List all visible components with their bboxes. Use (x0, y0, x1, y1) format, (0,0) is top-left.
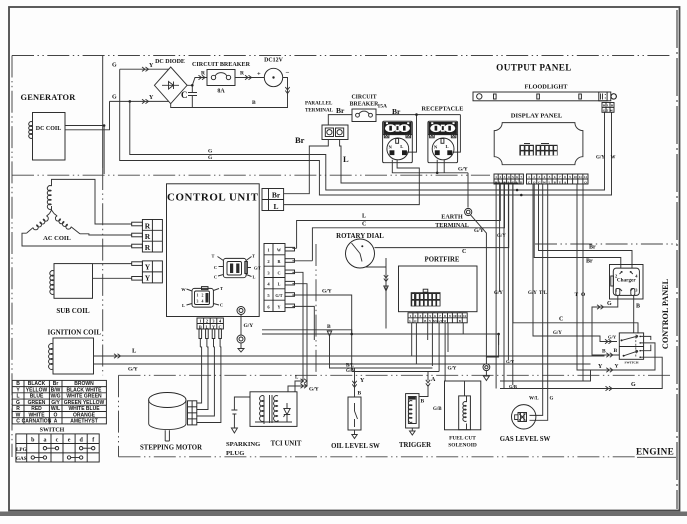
svg-text:6: 6 (434, 314, 436, 318)
chevron R wire (199, 75, 206, 79)
svg-text:A: A (431, 377, 436, 383)
fuel cut box (445, 381, 481, 430)
svg-text:ROTARY DIAL: ROTARY DIAL (336, 233, 384, 240)
diode bridge DC DIODE (154, 67, 187, 104)
svg-text:R: R (145, 221, 151, 230)
wire breaker 15A out (376, 115, 460, 153)
svg-text:RED: RED (31, 406, 42, 412)
svg-text:L: L (549, 180, 551, 184)
svg-text:G/Y: G/Y (309, 387, 319, 393)
svg-text:BROWN: BROWN (74, 381, 94, 387)
mid vertical dash-dot boundary (315, 244, 317, 375)
svg-text:+: + (257, 71, 261, 78)
svg-text:G/Y: G/Y (458, 167, 468, 173)
svg-text:G/Y: G/Y (51, 400, 60, 406)
svg-text:C: C (277, 270, 280, 275)
chevron Y switch (606, 368, 613, 372)
right inner dash line (676, 10, 678, 509)
wires bottom strip to motor (200, 339, 220, 348)
svg-text:2: 2 (414, 314, 416, 318)
trigger wires (410, 372, 429, 436)
wire G bottom right (500, 357, 662, 388)
svg-text:G/T: G/T (603, 109, 609, 113)
control-panel top dash-dot boundary (535, 243, 677, 245)
svg-text:G/Y: G/Y (128, 367, 138, 373)
sub coil box (54, 264, 93, 299)
svg-text:G: G (112, 95, 117, 101)
svg-text:Charger: Charger (617, 278, 636, 284)
svg-text:C: C (220, 303, 223, 308)
svg-text:CONTROL UNIT: CONTROL UNIT (167, 192, 259, 204)
svg-text:G/Y: G/Y (497, 234, 506, 239)
svg-text:B: B (252, 100, 256, 106)
tci inner wires (255, 420, 292, 424)
wire G trunk lower (130, 101, 605, 190)
svg-text:C: C (462, 249, 466, 255)
display panel outline (494, 123, 583, 165)
earth terminal symbol (465, 208, 472, 215)
bottom shadow bar (0, 512, 687, 517)
svg-text:8: 8 (444, 314, 446, 318)
svg-text:R: R (16, 406, 20, 412)
svg-text:L: L (343, 154, 349, 164)
svg-text:G/T: G/T (254, 266, 261, 271)
portfire strip drops (412, 323, 464, 381)
svg-text:10: 10 (453, 314, 457, 318)
wire dc coil top output (65, 125, 104, 127)
svg-text:TCI UNIT: TCI UNIT (271, 441, 302, 448)
ignition coil winding (49, 344, 53, 370)
svg-text:W: W (181, 287, 186, 292)
svg-text:B: B (636, 304, 640, 310)
left inner dash line (11, 56, 13, 458)
svg-text:BLACK WHITE: BLACK WHITE (67, 387, 103, 393)
svg-text:4: 4 (202, 300, 204, 304)
wire parallel up (328, 115, 352, 125)
svg-text:G: G (512, 180, 515, 184)
svg-text:G/T: G/T (275, 293, 282, 298)
wire T drop (577, 184, 655, 370)
svg-text:e: e (68, 438, 71, 444)
wire C to switch (513, 184, 638, 334)
svg-text:7: 7 (520, 175, 522, 179)
chevron B switch (606, 353, 613, 357)
svg-text:Y: Y (149, 63, 154, 69)
svg-text:15A: 15A (378, 104, 388, 110)
tci top wires (288, 381, 307, 392)
svg-text:6: 6 (267, 304, 270, 309)
svg-text:L: L (278, 282, 281, 287)
svg-text:LPG: LPG (16, 447, 27, 453)
dc12v battery circle (264, 68, 282, 86)
chevron charger G (597, 305, 604, 309)
svg-text:RECEPTACLE: RECEPTACLE (422, 106, 464, 113)
svg-text:WHITE GREEN: WHITE GREEN (66, 394, 102, 400)
wire breaker to DC12V (235, 77, 264, 79)
circuit breaker 8A box (207, 70, 235, 86)
oil level sw box (348, 397, 361, 430)
wire C from strip to control unit (292, 184, 504, 261)
wire TL drop (530, 184, 548, 420)
svg-text:C: C (214, 265, 217, 270)
svg-text:5: 5 (267, 293, 270, 298)
svg-text:W: W (16, 412, 21, 418)
svg-text:G/Y: G/Y (448, 367, 457, 372)
svg-text:6: 6 (516, 175, 518, 179)
svg-text:4: 4 (635, 274, 638, 279)
Br L terminal box (262, 189, 284, 211)
portfire lower strip (408, 313, 467, 323)
svg-text:W: W (443, 319, 446, 323)
svg-text:B/W: B/W (51, 387, 61, 393)
svg-text:Y: Y (145, 263, 151, 272)
control unit box (167, 184, 260, 317)
svg-text:EARTH: EARTH (441, 215, 463, 221)
R terminal pins (132, 222, 143, 226)
svg-text:3: 3 (504, 175, 506, 179)
chevron on return wire (285, 87, 289, 94)
wire bridge to breaker R (187, 78, 207, 86)
svg-text:G: G (631, 382, 636, 388)
svg-text:T/L: T/L (539, 291, 548, 296)
svg-text:11: 11 (579, 175, 582, 179)
svg-text:Y: Y (598, 364, 603, 370)
breaker 15A symbol (356, 113, 360, 117)
svg-text:SWITCH: SWITCH (625, 360, 639, 364)
svg-text:R: R (145, 243, 151, 252)
wire sub coil to Y1 (93, 264, 132, 265)
svg-text:Br: Br (295, 135, 305, 145)
trigger box (406, 394, 419, 428)
svg-text:C: C (181, 90, 188, 100)
svg-text:W: W (277, 248, 282, 253)
switch B wires (644, 336, 651, 350)
control unit right connector strip (264, 244, 285, 312)
svg-text:12: 12 (463, 314, 467, 318)
tci chevrons (301, 379, 308, 383)
svg-text:C: C (214, 275, 217, 280)
svg-text:7: 7 (439, 314, 441, 318)
svg-text:b: b (31, 438, 35, 444)
svg-text:FLOODLIGHT: FLOODLIGHT (524, 84, 568, 91)
rotary dial circle (346, 239, 375, 268)
svg-text:−: − (286, 69, 290, 77)
wire receptacle2 L drop (453, 115, 461, 153)
tci core lines (269, 395, 271, 423)
wire earth drop (467, 173, 469, 208)
wire receptacle2 N drop (437, 159, 444, 173)
tci diode (284, 403, 291, 420)
top section dash-dot boundary (12, 55, 672, 57)
svg-text:G/Y: G/Y (528, 291, 537, 296)
capacitor C (188, 85, 197, 107)
svg-text:BLACK: BLACK (28, 381, 46, 387)
svg-text:N: N (434, 144, 438, 149)
control panel switch box (619, 333, 643, 359)
wires pins 3-6 down (292, 272, 351, 386)
svg-text:G/Y: G/Y (506, 359, 515, 364)
svg-text:L: L (362, 214, 366, 220)
svg-text:L: L (182, 303, 185, 308)
svg-text:d: d (79, 438, 83, 444)
svg-text:1: 1 (197, 294, 199, 298)
wire strip A spare drops (496, 184, 513, 389)
svg-text:GENERATOR: GENERATOR (21, 93, 77, 102)
svg-text:WHITE: WHITE (28, 412, 45, 418)
wire L box out (284, 159, 420, 204)
svg-text:G: G (208, 149, 213, 155)
svg-text:L: L (295, 376, 299, 381)
wire charger pin1 G (592, 295, 619, 355)
svg-text:Y: Y (149, 95, 154, 101)
svg-text:PORTFIRE: PORTFIRE (425, 257, 460, 264)
svg-text:Y: Y (145, 274, 151, 283)
svg-text:OUTPUT PANEL: OUTPUT PANEL (496, 63, 572, 73)
svg-text:2: 2 (499, 175, 501, 179)
svg-text:OIL LEVEL SW: OIL LEVEL SW (331, 443, 380, 450)
svg-text:C: C (362, 222, 366, 228)
tci primary coil (260, 396, 264, 422)
oil level wire (354, 368, 356, 397)
svg-text:L: L (132, 348, 137, 355)
terminal strip A (494, 174, 523, 184)
svg-text:B: B (602, 349, 606, 355)
control unit connector A (223, 258, 246, 277)
wire B lower (262, 334, 499, 345)
svg-text:A: A (54, 419, 58, 425)
charger box (610, 265, 644, 300)
svg-text:c: c (56, 438, 59, 444)
svg-text:R: R (277, 259, 281, 264)
svg-text:CIRCUIT BREAKER: CIRCUIT BREAKER (192, 62, 251, 68)
wire Br to charger pin4 (539, 184, 633, 268)
wire to bottom earth (486, 334, 498, 357)
wire ac coil left phase (22, 233, 132, 246)
chevron GT switch (605, 339, 612, 343)
wire rotary dial down (365, 258, 386, 329)
svg-text:4: 4 (267, 282, 270, 287)
svg-text:DC COIL: DC COIL (36, 126, 62, 132)
svg-text:Y: Y (615, 364, 619, 370)
wire Br to charger pin2 (534, 184, 621, 268)
svg-text:DC12V: DC12V (264, 58, 283, 64)
svg-text:G/Y: G/Y (553, 331, 562, 336)
svg-text:Br: Br (589, 245, 596, 251)
svg-text:1: 1 (267, 248, 270, 253)
portfire to box drops (415, 292, 461, 313)
earth symbol below control unit (237, 307, 245, 315)
bridge inner diode symbol (162, 82, 179, 90)
wire ignition GY out (94, 364, 591, 381)
wire G trunk upper (120, 69, 612, 195)
svg-text:SWITCH: SWITCH (40, 428, 65, 434)
ac coil windings (47, 186, 51, 210)
chevron dial drop (384, 275, 388, 282)
svg-text:3: 3 (635, 288, 638, 293)
svg-text:B: B (327, 324, 331, 330)
chevron G engine (606, 386, 613, 390)
svg-text:L: L (409, 319, 411, 323)
wire DC12V return B (171, 78, 288, 108)
wire O drop (582, 184, 584, 381)
svg-text:G/Y: G/Y (322, 289, 332, 295)
svg-text:L: L (253, 275, 256, 280)
svg-text:TERMINAL: TERMINAL (305, 108, 334, 114)
control unit bottom connector strip (197, 318, 223, 329)
engine top dash-dot boundary (119, 374, 673, 376)
svg-text:B: B (421, 399, 425, 405)
svg-text:T: T (220, 286, 223, 291)
svg-text:G/Y: G/Y (244, 323, 254, 329)
svg-text:FUEL CUT: FUEL CUT (449, 436, 476, 442)
svg-text:ORANGE: ORANGE (73, 412, 96, 418)
svg-text:CARNATION: CARNATION (22, 419, 52, 425)
svg-text:5: 5 (512, 175, 514, 179)
svg-text:3: 3 (419, 314, 421, 318)
stepping motor body (149, 400, 186, 430)
circuit breaker 15A box (352, 109, 376, 122)
svg-text:T: T (212, 254, 215, 259)
svg-text:5: 5 (429, 314, 431, 318)
svg-text:G: G (607, 301, 612, 307)
sub coil winding (50, 271, 54, 295)
engine left dash-dot boundary (118, 375, 120, 457)
chevron trigger (426, 380, 430, 387)
svg-text:GAS: GAS (16, 456, 27, 462)
floodlight terminal grid (602, 103, 614, 113)
svg-text:N: N (389, 144, 393, 149)
portfire connector (411, 292, 441, 306)
svg-text:AMETHYST: AMETHYST (70, 419, 98, 425)
svg-text:C: C (16, 419, 20, 425)
svg-text:W: W (611, 156, 616, 161)
floodlight bar (473, 92, 611, 101)
wire G bottom into bridge (110, 100, 169, 102)
chevron ignition L (114, 354, 121, 358)
svg-text:W/L: W/L (529, 397, 539, 402)
svg-text:Br: Br (272, 191, 281, 200)
svg-text:PLUG: PLUG (226, 450, 244, 457)
svg-text:YELLOW: YELLOW (26, 387, 48, 393)
svg-text:G: G (208, 155, 213, 161)
wire sub coil to Y2 (93, 277, 132, 279)
terminal strip B (527, 174, 589, 184)
wire charger pin3 B (633, 295, 635, 333)
svg-text:STEPPING MOTOR: STEPPING MOTOR (140, 445, 202, 452)
svg-text:TRIGGER: TRIGGER (399, 442, 431, 449)
svg-text:SOLENOID: SOLENOID (448, 443, 477, 449)
svg-text:10: 10 (574, 175, 578, 179)
svg-text:4: 4 (219, 319, 222, 324)
sparking plug (231, 397, 250, 433)
parallel terminal box (322, 125, 348, 140)
svg-text:Br: Br (336, 106, 345, 115)
generator/control vertical dash-dot boundary (102, 56, 104, 169)
svg-text:W/G: W/G (51, 394, 61, 400)
svg-text:SPARKING: SPARKING (226, 441, 260, 448)
svg-text:4: 4 (508, 175, 510, 179)
ignition coil box (53, 338, 94, 374)
chevron after breaker (245, 75, 252, 79)
wire parallel Br down (284, 140, 329, 194)
svg-text:GAS LEVEL SW: GAS LEVEL SW (500, 436, 551, 443)
svg-text:B: B (614, 348, 618, 354)
svg-text:R: R (145, 232, 151, 241)
wire B upper (262, 330, 352, 334)
svg-text:1: 1 (199, 319, 201, 324)
svg-text:11: 11 (458, 314, 462, 318)
wire parallel L down (340, 140, 518, 185)
svg-text:O: O (54, 412, 58, 418)
breaker 8A symbol (211, 75, 215, 79)
portfire box (399, 266, 478, 312)
gas level circle (512, 405, 536, 429)
wire ignition L out (94, 355, 605, 357)
receptacle 2 (428, 121, 458, 163)
dc coil winding (29, 122, 33, 139)
chevron on top G wire (142, 67, 149, 71)
svg-text:T: T (252, 254, 255, 259)
svg-text:f: f (92, 438, 95, 444)
svg-text:2: 2 (202, 294, 204, 298)
svg-text:B: B (16, 381, 20, 387)
svg-text:G/Y: G/Y (494, 291, 503, 296)
tci unit box (250, 392, 297, 427)
svg-text:3: 3 (267, 270, 270, 275)
svg-text:G/Y: G/Y (608, 335, 617, 340)
chevron oil (352, 381, 356, 388)
engine bottom dash-dot line (119, 456, 637, 458)
svg-text:G/B: G/B (433, 407, 442, 412)
svg-text:3: 3 (197, 300, 199, 304)
svg-text:GREEN: GREEN (28, 400, 46, 406)
svg-text:L: L (446, 144, 449, 149)
wire colour legend table (12, 380, 106, 424)
svg-text:12: 12 (584, 175, 588, 179)
svg-text:G: G (550, 397, 554, 402)
svg-text:R: R (201, 71, 206, 77)
svg-text:Y: Y (360, 378, 365, 384)
svg-text:B: B (358, 391, 362, 397)
svg-text:G/Y: G/Y (596, 156, 605, 161)
svg-text:GREEN YELLOW: GREEN YELLOW (64, 400, 105, 406)
wire L from strip to control unit (292, 184, 500, 248)
wire dc coil drop (103, 126, 105, 175)
svg-text:WHITE BLUE: WHITE BLUE (68, 406, 100, 412)
bottom earth symbol (483, 364, 490, 371)
mid-left dash-dot boundary (12, 174, 490, 176)
svg-text:G: G (112, 63, 117, 69)
control unit connector B (192, 288, 213, 307)
Y terminal pins (132, 262, 143, 266)
svg-text:9: 9 (449, 314, 451, 318)
svg-text:L: L (273, 202, 278, 211)
svg-text:8A: 8A (217, 89, 225, 95)
wire GT to switch (533, 184, 617, 342)
svg-text:2: 2 (267, 259, 270, 264)
ac coil apex joint (50, 206, 55, 214)
svg-text:L: L (400, 144, 403, 149)
wire dc coil bottom output to G (65, 101, 110, 129)
svg-text:R: R (240, 71, 245, 77)
svg-text:BLUE: BLUE (30, 394, 44, 400)
wire G top into bridge (120, 68, 169, 70)
R terminal block (142, 220, 162, 253)
svg-text:Y: Y (277, 304, 280, 309)
wire earth diagonal (471, 215, 487, 364)
svg-text:Br: Br (392, 107, 401, 116)
svg-text:C: C (559, 317, 563, 323)
